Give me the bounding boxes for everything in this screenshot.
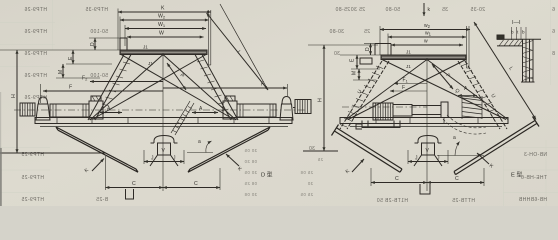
svg-text:H: H <box>318 98 324 102</box>
svg-text:30 05: 30 05 <box>244 148 257 153</box>
feed inlet stub <box>120 38 127 50</box>
svg-text:30-80: 30-80 <box>329 29 344 35</box>
svg-text:6: 6 <box>552 7 555 13</box>
svg-text:B-25: B-25 <box>96 197 108 203</box>
left support dashed hatched <box>340 61 389 129</box>
funnel legs <box>414 155 442 166</box>
dimension H <box>308 45 378 151</box>
frame X braces <box>348 60 506 120</box>
extension lines top <box>118 9 211 66</box>
funnel bell <box>415 136 442 144</box>
svg-text:25: 25 <box>317 157 323 162</box>
svg-text:b: b <box>522 30 525 35</box>
labels F1 F <box>390 78 427 92</box>
base band <box>35 118 292 127</box>
svg-text:w: w <box>424 39 428 45</box>
svg-text:HTP9-26: HTP9-26 <box>24 29 47 35</box>
svg-text:NB-OH-3: NB-OH-3 <box>524 152 547 158</box>
svg-text:20-35: 20-35 <box>470 7 485 13</box>
right chute <box>454 117 539 175</box>
dimension W1 <box>125 22 206 29</box>
svg-text:W1: W1 <box>158 22 166 28</box>
dimension A left <box>100 106 122 113</box>
arm centerline <box>14 109 306 111</box>
extension line deck level <box>340 54 381 56</box>
dimension W <box>127 31 204 38</box>
svg-text:HTP9-26: HTP9-26 <box>24 7 47 13</box>
dimension C right <box>427 168 484 186</box>
right support dashed hatched <box>458 61 507 129</box>
motor pedestal <box>356 121 400 130</box>
svg-text:b: b <box>511 30 514 35</box>
dimension H <box>11 50 17 153</box>
dimension W2 <box>120 14 209 21</box>
svg-text:HTP9-35: HTP9-35 <box>85 7 108 13</box>
svg-text:K: K <box>161 6 165 12</box>
spout box <box>126 189 134 199</box>
ladder brace to funnel <box>171 101 194 135</box>
arrow k <box>424 3 431 16</box>
svg-text:J1: J1 <box>406 64 411 69</box>
deck band <box>120 50 207 55</box>
coupling <box>393 102 448 118</box>
angle profile flange <box>497 39 541 46</box>
angle a <box>437 135 484 156</box>
dimension P <box>167 63 186 90</box>
svg-text:08 25: 08 25 <box>244 181 257 186</box>
spring column (hatched) <box>462 96 482 119</box>
svg-text:25 30: 25 30 <box>350 7 365 13</box>
dimension C left <box>371 168 427 186</box>
dimension D <box>364 44 378 56</box>
spout box <box>420 184 430 194</box>
svg-text:C: C <box>132 181 136 187</box>
svg-text:25 08: 25 08 <box>300 170 313 175</box>
svg-text:F: F <box>402 85 405 91</box>
dimension A <box>458 86 477 96</box>
svg-text:C: C <box>194 181 198 187</box>
labels b t b <box>511 30 525 35</box>
svg-text:M: M <box>352 71 358 75</box>
svg-text:H: H <box>11 94 17 98</box>
svg-text:H1TB-2B 50: H1TB-2B 50 <box>376 198 408 204</box>
dimension J <box>408 150 448 164</box>
small box left of deck <box>360 58 372 64</box>
svg-text:E 型: E 型 <box>511 171 522 179</box>
svg-text:THE-HB-6: THE-HB-6 <box>521 175 547 181</box>
svg-text:35: 35 <box>442 7 448 13</box>
svg-text:J1: J1 <box>143 45 148 50</box>
svg-text:C: C <box>395 176 399 182</box>
left inclined support (hatched) <box>88 55 131 121</box>
label K right with leader <box>477 153 495 170</box>
label K left with leader <box>84 159 104 175</box>
svg-text:F1: F1 <box>403 78 409 84</box>
svg-text:D 型: D 型 <box>261 171 273 179</box>
svg-text:C: C <box>455 176 459 182</box>
dimension D <box>89 38 121 50</box>
svg-text:08 30: 08 30 <box>244 159 257 164</box>
svg-text:a: a <box>453 135 456 141</box>
hopper V box <box>158 143 171 155</box>
right inclined support (hatched) <box>195 55 238 121</box>
svg-text:HTP9-25: HTP9-25 <box>21 197 44 203</box>
svg-text:30 05: 30 05 <box>244 170 257 175</box>
centerline <box>162 55 164 192</box>
right cylinder <box>237 104 276 117</box>
funnel bell <box>151 136 178 144</box>
svg-text:HTP9-26: HTP9-26 <box>24 95 47 101</box>
svg-text:J1: J1 <box>406 50 411 55</box>
left motor shaft (finned) <box>20 103 35 116</box>
svg-text:25 05: 25 05 <box>300 192 313 197</box>
dimension w2 <box>380 23 470 30</box>
left bearing block <box>89 96 103 119</box>
flange hook <box>497 35 504 39</box>
svg-text:30 08: 30 08 <box>244 192 257 197</box>
svg-text:50-100: 50-100 <box>90 29 108 35</box>
dimension E <box>350 55 381 69</box>
arm centerline <box>342 106 427 108</box>
apex hub <box>162 53 164 55</box>
svg-text:W: W <box>159 31 164 37</box>
profile web column <box>521 39 535 82</box>
dimension E <box>66 50 112 64</box>
svg-text:HTP9-25: HTP9-25 <box>21 175 44 181</box>
apex hub <box>426 58 428 60</box>
dimension M <box>56 64 100 78</box>
dimension J <box>144 150 184 164</box>
dimension K <box>118 6 211 13</box>
book gutter edge <box>0 148 2 206</box>
main motor (finned) <box>373 103 393 120</box>
dashed arcs <box>443 115 486 134</box>
dimension M <box>352 69 377 80</box>
dimension L <box>207 4 269 90</box>
svg-text:a: a <box>198 139 201 145</box>
svg-text:HTTB-25: HTTB-25 <box>452 198 475 204</box>
svg-text:HTP9-26: HTP9-26 <box>24 51 47 57</box>
right motor shaft (finned) <box>293 100 311 114</box>
svg-text:50-80: 50-80 <box>385 7 400 13</box>
svg-text:F: F <box>69 85 72 91</box>
dimension F left <box>41 84 164 103</box>
svg-text:30: 30 <box>334 51 340 57</box>
svg-text:W2: W2 <box>158 14 166 20</box>
dimension C right <box>163 168 220 190</box>
svg-text:D: D <box>365 47 371 51</box>
dimension C left <box>106 156 164 190</box>
svg-text:M: M <box>58 70 64 74</box>
funnel legs <box>150 155 178 166</box>
label K right with leader <box>226 154 243 173</box>
svg-text:HB-6BHHB: HB-6BHHB <box>518 197 547 203</box>
svg-text:D: D <box>90 42 96 46</box>
dimension F right <box>163 82 287 89</box>
dimension w1 <box>388 31 466 38</box>
inlet stub <box>375 44 391 56</box>
svg-text:8: 8 <box>552 51 555 57</box>
frame diagonals from apex <box>90 55 236 121</box>
label K left with leader <box>345 159 364 175</box>
dimension A right <box>192 106 218 113</box>
svg-text:6: 6 <box>552 29 555 35</box>
right pedestal <box>280 84 293 120</box>
svg-text:F2: F2 <box>82 76 88 82</box>
svg-text:HTP9-26: HTP9-26 <box>24 73 47 79</box>
right chute <box>188 127 270 172</box>
centerline <box>426 60 428 192</box>
dimension P <box>432 64 453 89</box>
svg-text:25: 25 <box>364 29 370 35</box>
svg-text:I—I: I—I <box>512 20 521 26</box>
deck band <box>381 55 466 60</box>
right bearing block <box>223 96 237 119</box>
dimension F2 <box>82 76 163 82</box>
angle a <box>187 139 213 153</box>
left pedestal <box>36 97 50 120</box>
left chute <box>56 127 138 172</box>
left cylinder <box>50 104 89 117</box>
svg-text:w1: w1 <box>425 31 432 37</box>
extension verticals top <box>380 26 469 68</box>
svg-text:25-80: 25-80 <box>335 7 350 13</box>
dimension w <box>391 39 463 46</box>
ground line <box>0 152 106 154</box>
frame diagonals from apex <box>346 60 508 120</box>
hopper V box <box>422 143 435 155</box>
frame X braces <box>92 55 234 120</box>
ground line <box>303 150 338 152</box>
dim ticks <box>512 27 527 40</box>
dimension L <box>474 22 536 120</box>
extension line deck level <box>0 49 120 51</box>
svg-text:w2: w2 <box>424 23 431 29</box>
base band <box>340 118 508 127</box>
left chute <box>332 125 403 173</box>
svg-text:30: 30 <box>307 181 313 186</box>
